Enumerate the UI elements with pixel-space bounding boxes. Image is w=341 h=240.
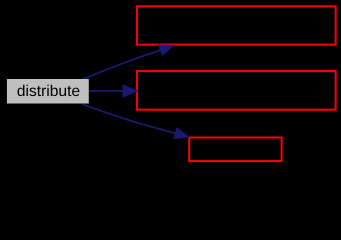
wire: edge from distribute to top box [82,50,160,79]
arrowhead of middle edge [123,85,138,97]
arrowhead of bottom edge [174,128,189,139]
node: bottom callee box (red, truncated) [189,138,281,162]
node: distribute (current function, grey filled) [7,79,89,104]
wire: edge from distribute to bottom box [83,104,176,133]
node: top callee box (red, truncated) [137,6,336,44]
wire: edge from distribute to middle box [89,90,125,92]
node: middle callee box (red, truncated) [137,71,336,110]
arrowhead of top edge [159,45,174,55]
label: distribute [17,85,79,96]
